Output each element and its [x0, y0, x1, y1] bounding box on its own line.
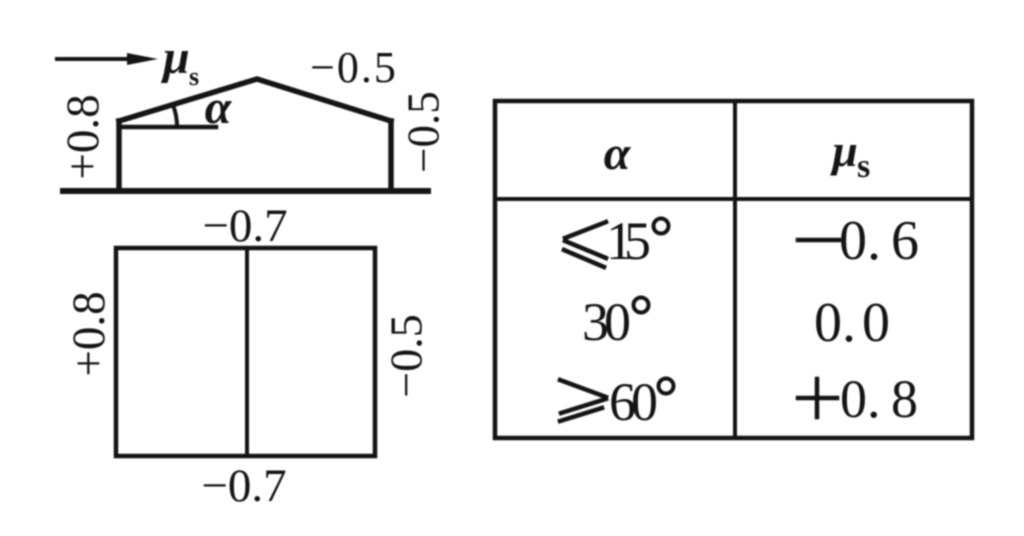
angle arc — [174, 108, 177, 126]
svg-text:μ: μ — [160, 31, 190, 84]
svg-text:α: α — [604, 127, 632, 180]
plan view centre partition line — [245, 248, 249, 456]
table cell: greater-or-equal 60 degrees — [560, 372, 674, 432]
table cell: 30 degrees — [582, 292, 649, 352]
ground line — [63, 188, 428, 194]
table header divider — [495, 197, 972, 201]
svg-text:0.: 0. — [840, 369, 881, 429]
svg-text:6: 6 — [891, 210, 919, 272]
table cell: less-or-equal 15 degrees — [564, 211, 669, 271]
table cell: +0.8 — [798, 369, 918, 429]
svg-text:60: 60 — [609, 372, 656, 432]
svg-text:μ: μ — [830, 125, 858, 176]
table cell: -0.6 — [798, 210, 919, 272]
svg-text:−0.7: −0.7 — [202, 200, 287, 252]
svg-text:−0.5: −0.5 — [398, 91, 448, 173]
svg-text:−0.5: −0.5 — [310, 43, 398, 92]
building elevation roof — [119, 79, 391, 121]
svg-text:s: s — [857, 148, 870, 185]
building elevation right wall — [388, 121, 394, 191]
table column divider — [733, 101, 737, 438]
svg-text:α: α — [205, 81, 233, 134]
table outer frame — [495, 101, 972, 438]
wind direction arrow — [57, 53, 158, 65]
plan view rectangle — [116, 248, 375, 456]
svg-text:+0.8: +0.8 — [63, 291, 115, 376]
table header mu_s — [830, 125, 870, 185]
svg-text:0.: 0. — [839, 210, 881, 272]
svg-text:15: 15 — [606, 211, 649, 271]
svg-text:0: 0 — [862, 292, 890, 354]
svg-text:−0.7: −0.7 — [201, 460, 286, 512]
svg-text:8: 8 — [891, 369, 918, 429]
building elevation left wall — [116, 121, 122, 191]
svg-text:30: 30 — [582, 292, 629, 352]
label mu_s (wind coefficient) — [160, 31, 199, 91]
svg-text:+0.8: +0.8 — [57, 94, 109, 179]
table cell: 0.0 — [814, 292, 890, 354]
svg-text:s: s — [189, 62, 199, 91]
svg-text:−0.5: −0.5 — [381, 314, 432, 397]
angle reference horizontal line — [121, 125, 216, 130]
svg-text:0.: 0. — [814, 292, 856, 354]
